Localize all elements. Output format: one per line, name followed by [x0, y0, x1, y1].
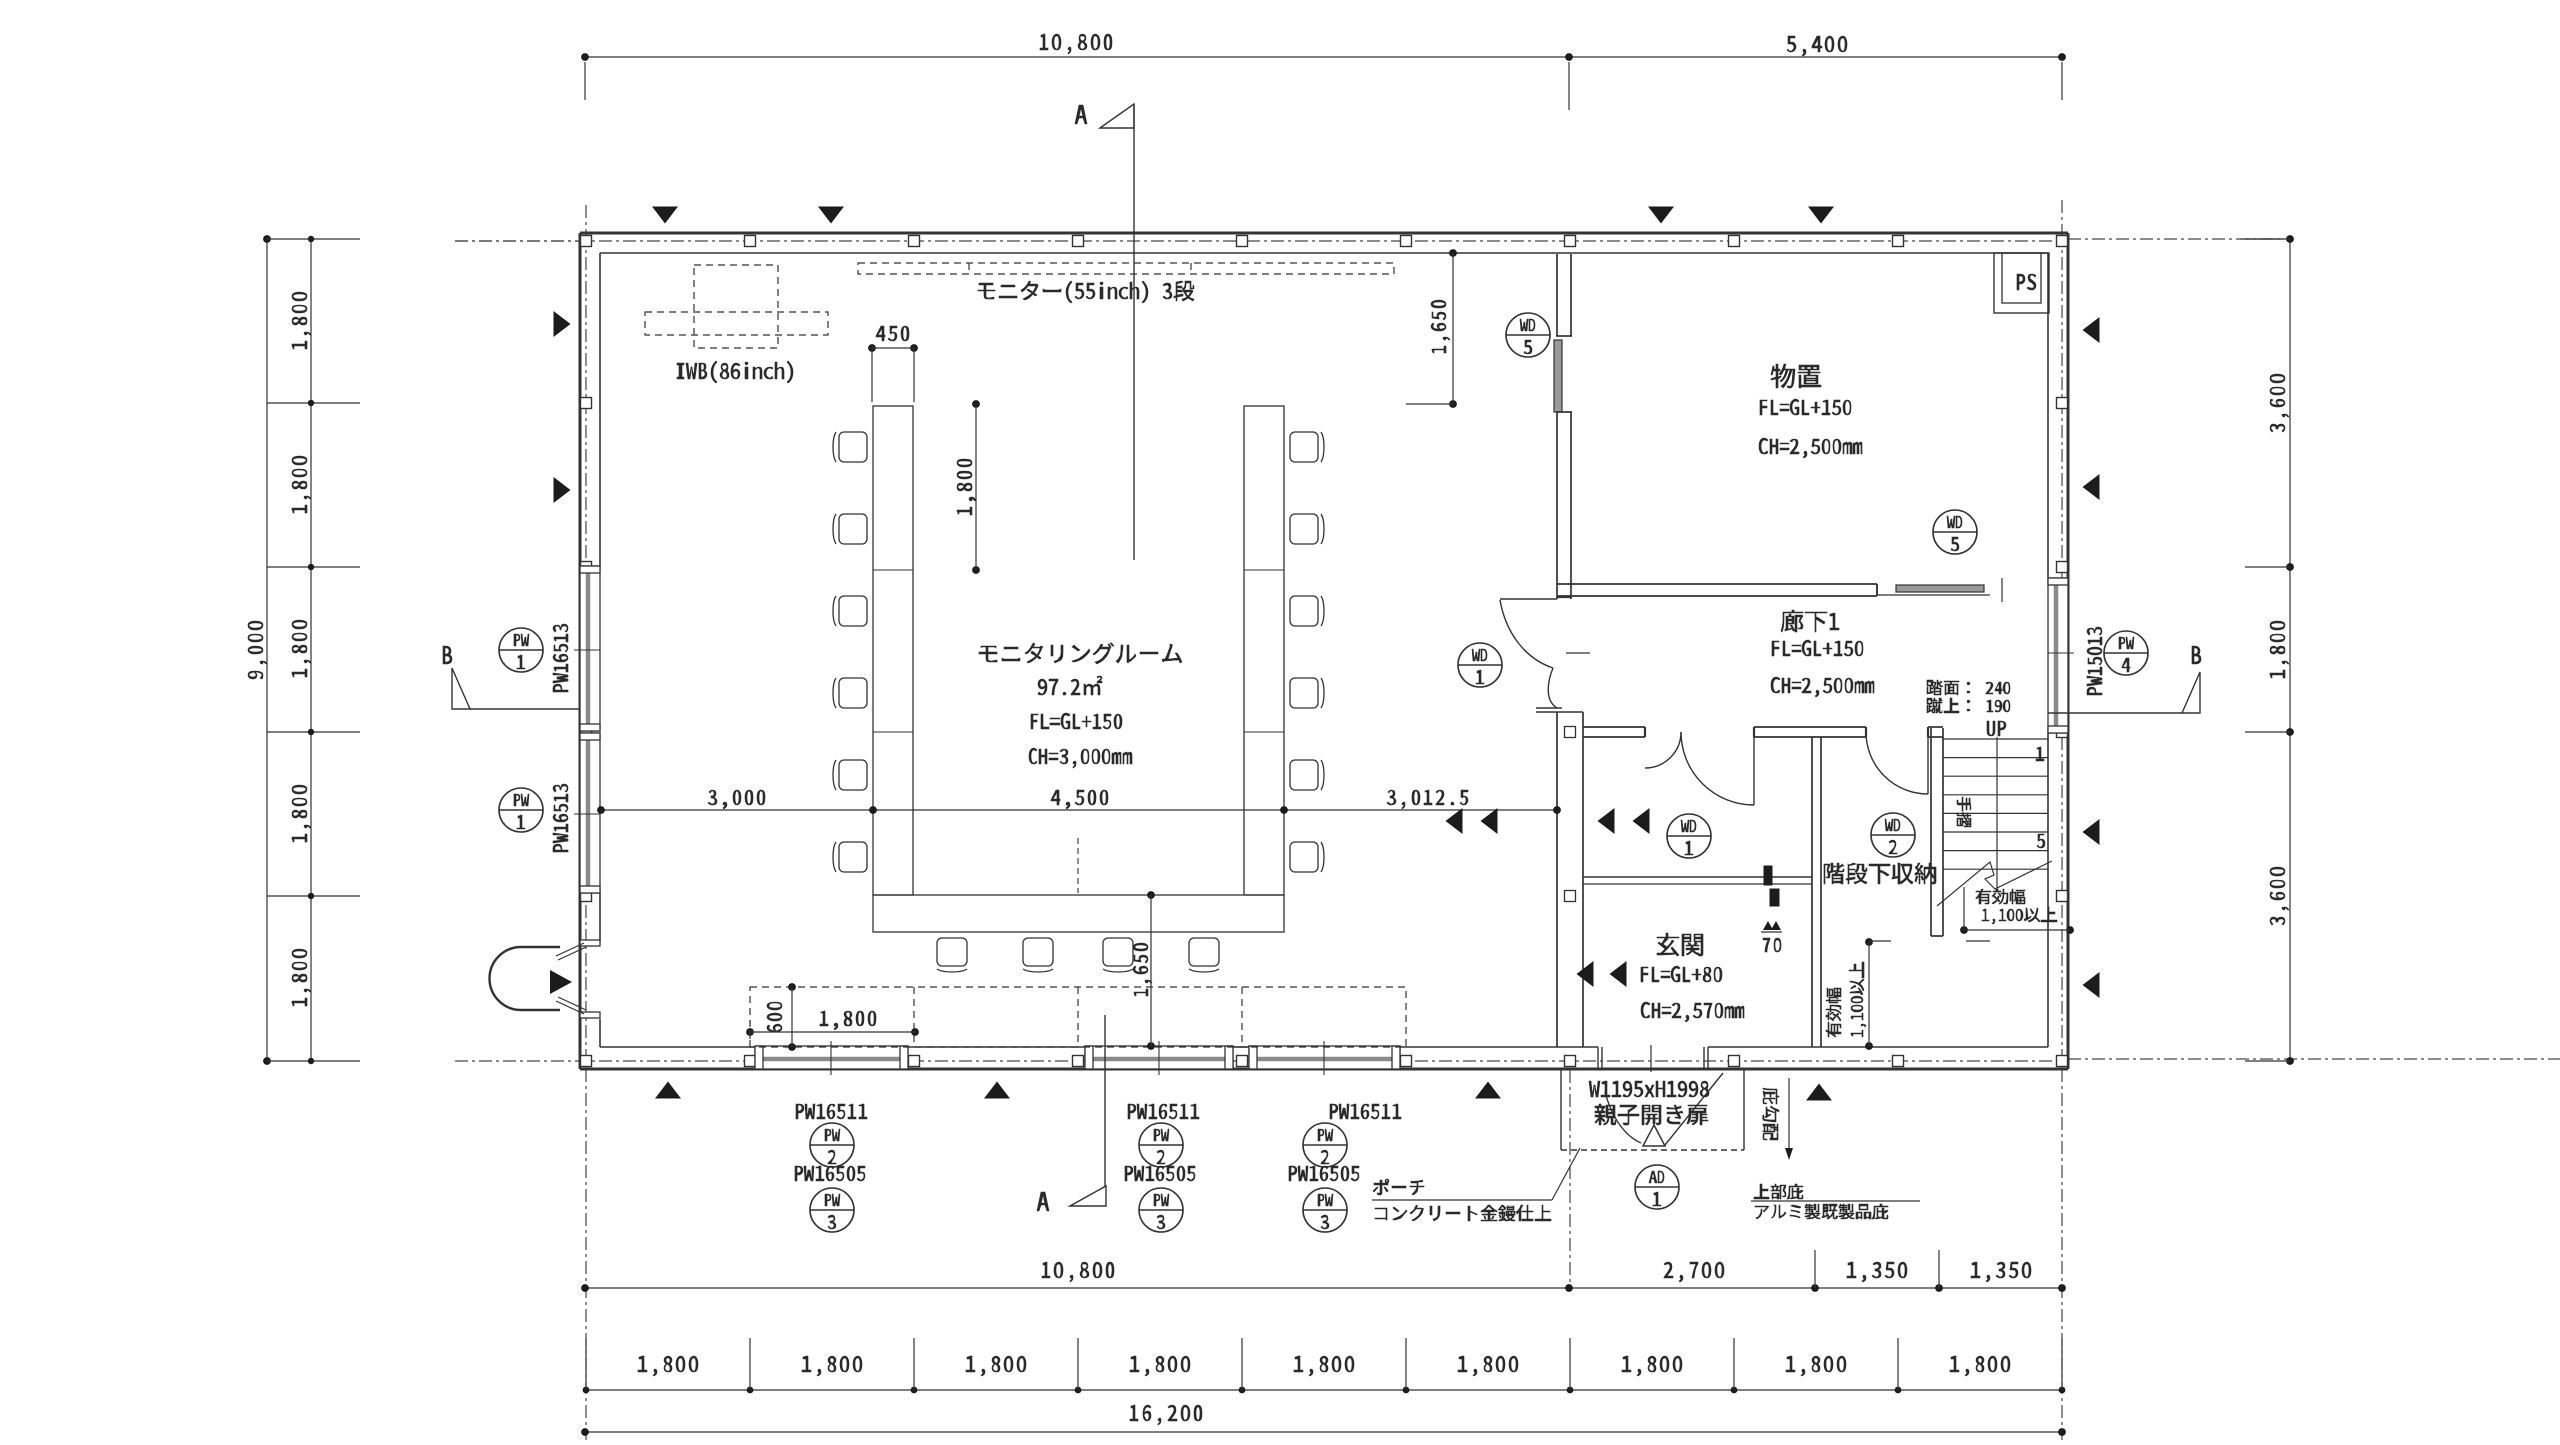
- door WD1-1 parent arc: [1500, 600, 1553, 668]
- entrance door AD1 center stile tick: [1650, 1045, 1652, 1072]
- interior wall monitoring/storage upper: [1556, 254, 1572, 336]
- left wall door direction triangle: [550, 970, 572, 994]
- grid square on entrance left wall y896: [1565, 891, 1576, 902]
- dim right 1800: [2270, 621, 2289, 678]
- door tag WD5 upper: [1506, 313, 1550, 357]
- room label corridor FL: [1772, 640, 1863, 656]
- IWB label: [677, 361, 793, 383]
- room label entrance: [1657, 933, 1703, 956]
- window label PW16505 c: [1289, 1166, 1359, 1181]
- stair number 5: [2037, 834, 2045, 848]
- door WD1-2 leaf: [1753, 732, 1755, 805]
- upper eave label: [1751, 1184, 1920, 1219]
- left wall door slab: [490, 947, 560, 1010]
- window tag PW3 c: [1303, 1188, 1347, 1232]
- window PW16511 bay1 on bottom wall: [755, 1046, 908, 1069]
- door WD1-1 leaf: [1500, 598, 1557, 600]
- dim left 9000 line: [263, 235, 271, 1065]
- eave slope label: [1763, 1088, 1779, 1140]
- table left column: [873, 406, 913, 895]
- door size label: [1589, 1081, 1709, 1125]
- dim bottom 1350 b: [1971, 1262, 2031, 1282]
- dim top 10800: [1040, 34, 1112, 54]
- exterior wall top outer: [580, 232, 2068, 235]
- dim bottom row1 line: [581, 1250, 2066, 1292]
- dim bottom 1800 label 4: [1130, 1356, 1190, 1376]
- room label storage: [1771, 364, 1821, 388]
- PS label: [2017, 274, 2036, 290]
- north arrow top wall 4: [1808, 207, 1834, 224]
- window label PW16511 b: [1128, 1104, 1199, 1119]
- stair riser note: [1927, 698, 2010, 713]
- stair center handrail line: [1996, 737, 1998, 888]
- door WD2 leaf: [1927, 732, 1929, 794]
- window tag PW1 lower text: [553, 784, 568, 852]
- window tag PW4: [2104, 631, 2148, 675]
- arrow right wall 3: [2083, 819, 2100, 845]
- dim bottom 1800 label 6: [1458, 1356, 1518, 1376]
- section marker A bottom: [1037, 1015, 1106, 1211]
- table bottom row: [873, 895, 1284, 932]
- window PW16513 center tick upper: [574, 649, 600, 651]
- arrow left wall 1: [554, 311, 571, 337]
- entrance door AD1 swing triangle: [1643, 1125, 1665, 1146]
- dim 3012.5 label: [1387, 790, 1468, 809]
- grid squares on left wall: [581, 398, 592, 902]
- bottom wall centerline: [455, 1060, 2062, 1062]
- door tag WD1 left: [1458, 643, 1502, 687]
- room label corridor: [1781, 610, 1839, 632]
- window PW16511 center tick 3: [1323, 1041, 1325, 1075]
- dim bottom row2 line: [583, 1338, 2066, 1393]
- entrance door AD1 jambs: [1598, 1047, 1708, 1070]
- dim 4500 label: [1051, 790, 1108, 809]
- arrow right wall 1: [2083, 317, 2100, 343]
- exterior wall bottom inner seg2: [908, 1046, 1085, 1048]
- dim right line: [2286, 235, 2294, 1065]
- room label storage FL: [1760, 399, 1851, 415]
- dim 1800 table: [957, 400, 980, 574]
- arrow bottom wall 1: [655, 1082, 681, 1099]
- dim bottom 1800 label 2: [802, 1356, 862, 1376]
- exterior wall bottom outer: [580, 1068, 2068, 1071]
- sliding door WD5-1 panel: [1554, 340, 1562, 412]
- exterior wall bottom inner seg4: [1400, 1046, 1598, 1048]
- window tag PW2 b: [1139, 1123, 1183, 1167]
- window PW16513 center tick lower: [574, 813, 600, 815]
- dim 450: [868, 326, 918, 402]
- top wall centerline right extension: [2068, 238, 2284, 240]
- window tag PW1 upper text: [553, 624, 568, 692]
- dim left 1800 label 5: [292, 949, 311, 1006]
- arrow pair corridor: [1598, 808, 1650, 834]
- arrow pair monitoring room: [1446, 808, 1498, 834]
- step height text 70: [1763, 938, 1781, 952]
- room label entrance CH: [1641, 1002, 1744, 1022]
- north arrow top wall 1: [652, 207, 678, 224]
- dim bottom 1350 a: [1847, 1262, 1907, 1282]
- north arrow top wall 2: [818, 207, 844, 224]
- arrow right wall 4: [2083, 972, 2100, 998]
- window PW16513 lower on left wall: [580, 733, 600, 893]
- chairs bottom row: [937, 938, 1219, 972]
- dim 600: [767, 983, 796, 1051]
- exterior wall bottom inner seg1: [600, 1046, 755, 1048]
- window label PW16505 b: [1125, 1166, 1195, 1181]
- stair handrail wall: [1931, 728, 1943, 936]
- dim 1650 bottom: [1133, 891, 1155, 1050]
- window label PW16505 a: [795, 1166, 865, 1181]
- sliding door WD5-2 panel: [1896, 585, 1984, 592]
- room label monitoring CH: [1029, 748, 1132, 768]
- dim bottom 1800 label 9: [1950, 1356, 2010, 1376]
- interior wall corridor/entrance seg1: [1583, 727, 1645, 737]
- exterior wall bottom inner seg5: [1708, 1046, 2048, 1048]
- room label monitoring room: [979, 643, 1182, 664]
- window tag PW3 b: [1139, 1188, 1183, 1232]
- arrow bottom wall 4: [1806, 1084, 1832, 1101]
- exterior wall left inner below windows: [599, 893, 601, 941]
- exterior wall left inner upper: [599, 253, 601, 566]
- IWB board: [645, 312, 828, 335]
- entrance step cut mark upper: [1764, 866, 1772, 885]
- dim left 1800 label 4: [292, 785, 311, 842]
- dim bottom 1800 label 7: [1622, 1356, 1682, 1376]
- hall width dim: [1865, 938, 1891, 1050]
- stair break line: [1937, 861, 2052, 906]
- interior wall entrance/understair: [1812, 737, 1821, 1047]
- window tag PW2 c: [1303, 1123, 1347, 1167]
- bottom wall centerline right extension: [2068, 1058, 2560, 1060]
- sliding door WD5-2 tick: [2001, 578, 2003, 602]
- door tag WD2: [1871, 813, 1915, 857]
- entrance door AD1 parent swing arc: [1605, 1092, 1641, 1143]
- arrow pair entrance: [1577, 961, 1627, 987]
- entrance step symbol: [1761, 921, 1782, 932]
- grid extension top-left: [455, 240, 580, 242]
- monitor row (55inch x3): [858, 263, 1394, 274]
- room label under-stair storage: [1824, 863, 1936, 884]
- window PW16511 center tick 2: [1158, 1041, 1160, 1075]
- monitor row label: [978, 281, 1194, 303]
- door tag AD1: [1635, 1165, 1679, 1209]
- door WD1-1 child arc: [1548, 668, 1557, 708]
- room label monitoring area: [1038, 676, 1102, 695]
- dim bottom 1800 label 1: [638, 1356, 698, 1376]
- left wall centerline: [585, 205, 587, 1440]
- section marker B right: [2048, 646, 2201, 713]
- window tag PW4 text: [2087, 627, 2102, 695]
- stair number 1: [2036, 747, 2044, 761]
- right wall centerline: [2061, 200, 2063, 1440]
- IWB panel: [694, 265, 778, 348]
- dim top 5400: [1787, 36, 1847, 56]
- porch label: [1372, 1148, 1580, 1221]
- left wall door jambs: [580, 940, 600, 1018]
- dim right 3600 upper: [2270, 374, 2289, 432]
- stair width note: [1976, 889, 2057, 924]
- dim left ticks: [267, 236, 360, 1064]
- dim bottom 1800 label 3: [966, 1356, 1026, 1376]
- hall width note vertical: [1826, 962, 1866, 1037]
- porch outline: [1561, 1070, 1744, 1150]
- window tag PW1 upper: [499, 628, 543, 672]
- dim 1650 top: [1406, 249, 1457, 408]
- room label storage CH: [1759, 438, 1862, 458]
- interior wall entrance left: [1536, 708, 1583, 1047]
- grid square on entrance left wall y732: [1565, 727, 1576, 738]
- dim room widths line: [597, 806, 1561, 814]
- section marker A top: [1075, 104, 1134, 560]
- door tag WD1 entrance: [1667, 814, 1711, 858]
- dim bottom row3 line: [581, 1428, 2066, 1436]
- arrow left wall 2: [554, 477, 571, 503]
- arrow right wall 2: [2083, 474, 2100, 500]
- exterior wall right inner upper: [2047, 253, 2049, 578]
- table right column: [1244, 406, 1284, 895]
- window PW15013 on right wall: [2048, 578, 2068, 733]
- dim 3000 label: [708, 790, 765, 809]
- entrance grid centerline x=1570: [1569, 1070, 1571, 1288]
- dim bottom 1800 label 8: [1786, 1356, 1846, 1376]
- grid squares on right wall: [2057, 398, 2068, 902]
- stair handrail text: [1957, 797, 1971, 827]
- door WD1-2 child arc: [1645, 732, 1681, 768]
- stair label UP: [1987, 721, 2006, 736]
- door WD1-2 parent arc: [1681, 732, 1754, 805]
- stair tread note: [1927, 680, 2010, 695]
- dim bottom 16200: [1130, 1405, 1202, 1425]
- window PW16511 bay3 on bottom wall: [1085, 1046, 1233, 1069]
- exterior wall right outer: [2067, 233, 2070, 1069]
- dim left 9000 label: [248, 621, 267, 679]
- room label corridor CH: [1771, 677, 1874, 697]
- counter dashed: [750, 987, 1406, 1047]
- room label monitoring FL: [1031, 713, 1122, 729]
- arrow bottom wall 3: [1475, 1082, 1501, 1099]
- dim bottom 1800 label 5: [1294, 1356, 1354, 1376]
- exterior wall right inner lower: [2047, 733, 2049, 1047]
- window PW16511 bay4 on bottom wall: [1249, 1046, 1400, 1069]
- stair width dim: [1960, 887, 2074, 941]
- dim right 3600 lower: [2270, 867, 2289, 925]
- dim right ticks: [2245, 239, 2290, 1061]
- grid squares on top wall: [581, 236, 2068, 247]
- dim left 1800 label 3: [292, 620, 311, 677]
- grid squares on bottom wall: [581, 1056, 2068, 1067]
- north arrow top wall 3: [1648, 207, 1674, 224]
- door tag WD5 lower: [1933, 510, 1977, 554]
- dim left 1800 label 1: [292, 292, 311, 349]
- chairs left side: [833, 432, 867, 872]
- window label PW16511 a: [796, 1104, 867, 1119]
- interior wall storage/corridor: [1557, 584, 1990, 596]
- chairs right side: [1290, 432, 1324, 872]
- interior wall corridor/stair seg3: [1928, 727, 1943, 737]
- window tag PW2 a: [810, 1123, 854, 1167]
- dim bottom 2700: [1664, 1262, 1724, 1282]
- window tag PW3 a: [810, 1188, 854, 1232]
- stair treads: [1943, 739, 2048, 869]
- exterior wall left outer: [579, 233, 582, 1069]
- table centre dashed tick: [1077, 838, 1079, 893]
- dim 1800 counter: [746, 1011, 919, 1045]
- entrance door AD1 child fold line: [1665, 1073, 1723, 1145]
- PS shaft box: [1994, 253, 2049, 313]
- eave slope arrow: [1785, 1078, 1793, 1160]
- window label PW16511 c: [1330, 1104, 1401, 1119]
- window tag PW1 lower: [499, 788, 543, 832]
- interior wall monitoring/storage lower: [1556, 412, 1572, 599]
- exterior wall top inner: [600, 252, 2048, 254]
- entrance step edge lines: [1583, 877, 1812, 884]
- dim left 1800 label 2: [292, 456, 311, 513]
- exterior wall left inner below door: [599, 1019, 601, 1047]
- window PW16513 upper on left wall: [580, 566, 600, 731]
- dim bottom 10800: [1042, 1262, 1114, 1282]
- window PW16511 center tick 1: [830, 1041, 832, 1075]
- section marker B left: [443, 646, 580, 709]
- exterior wall bottom inner seg3: [1233, 1046, 1249, 1048]
- dim top line: [581, 53, 2066, 110]
- left wall door hinge marks: [556, 943, 586, 1014]
- window PW15013 center tick: [2048, 652, 2074, 654]
- arrow bottom wall 2: [984, 1082, 1010, 1099]
- top wall centerline: [455, 240, 2062, 242]
- door WD1-1 stop tick: [1566, 652, 1590, 654]
- entrance step cut mark lower: [1770, 889, 1779, 906]
- interior wall corridor/entrance seg2: [1754, 727, 1866, 737]
- room label entrance FL: [1641, 966, 1722, 982]
- door WD2 arc: [1866, 732, 1928, 794]
